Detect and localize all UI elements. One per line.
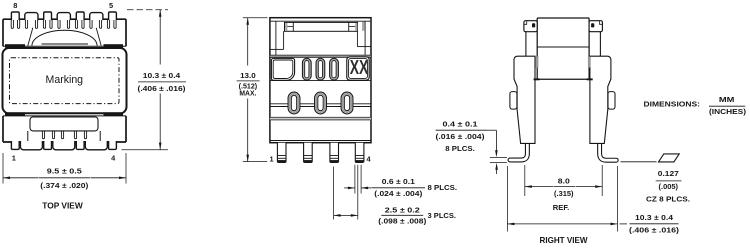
front view: ring 1 outer <box>288 92 300 114</box>
svg-text:8 PLCS.: 8 PLCS. <box>428 183 458 192</box>
top view: upper-left dark ear <box>5 44 25 48</box>
top view: lower core bottom edge <box>3 141 126 143</box>
top view: lower inner flange rect <box>30 117 98 131</box>
front view: ring 1 inner <box>291 95 296 110</box>
dim 0.4: foot top ext line <box>490 156 507 158</box>
dim 8.0: dim line left seg <box>525 186 554 188</box>
front view: left wall second edge <box>283 31 285 49</box>
top view: wide tab 1 (top) <box>25 13 38 21</box>
dim 0.4: fraction bar <box>436 129 487 131</box>
right view: right column outer edge <box>599 32 601 57</box>
svg-text:REF.: REF. <box>553 203 570 212</box>
dim 0.4: leader horizontal <box>487 129 497 131</box>
front view: right wall inner edge <box>364 21 366 55</box>
dim 2.5: left arrowhead <box>334 214 341 217</box>
top view: flange support left <box>27 131 29 142</box>
dim 0.6: pin4 right edge ext <box>360 165 362 194</box>
front view: small slot 1 gray ring <box>304 59 311 79</box>
dim 9.5: dim line left seg <box>3 177 38 179</box>
svg-text:DIMENSIONS:: DIMENSIONS: <box>644 100 701 109</box>
top view: marking dash-dot border <box>10 58 120 104</box>
top view: left slant line <box>28 28 33 46</box>
svg-text:5: 5 <box>109 1 113 10</box>
svg-text:2.5 ± 0.2: 2.5 ± 0.2 <box>385 206 420 215</box>
dim 0.4: down arrowhead <box>495 150 498 157</box>
top view: right slant line <box>96 28 101 46</box>
front view: mid double line lower <box>270 106 371 108</box>
front view: XX box inner <box>349 59 368 79</box>
front view: top cap line <box>270 20 371 22</box>
front view: mid double line upper <box>270 103 371 105</box>
top view: wire hook 9 (upper) <box>75 20 77 28</box>
dim 10.3 top: up arrowhead <box>159 10 162 17</box>
svg-text:8 PLCS.: 8 PLCS. <box>445 144 475 153</box>
front view: left pocket outer <box>271 58 294 80</box>
svg-text:8.0: 8.0 <box>558 176 570 185</box>
front view: small slot 2 inner <box>318 61 322 78</box>
front view: small slot 2 outer <box>316 58 325 80</box>
right view: core block <box>537 18 589 79</box>
top view: core dome arc <box>32 30 97 46</box>
top view: wire hook 2 (lower) <box>52 131 54 139</box>
svg-text:(.406 ± .016): (.406 ± .016) <box>138 84 187 93</box>
front view: ring 2 gray <box>316 94 325 113</box>
right view: left tab step <box>524 21 527 25</box>
top view: wire hook 10 (upper) <box>82 20 84 28</box>
dim 10.3 rv: dim line <box>507 223 617 225</box>
top view: lower-right dark ear <box>104 112 124 116</box>
right view: left tab pin mark <box>532 23 535 27</box>
front view: pin 1 solder tip <box>278 160 286 162</box>
dim 10.3 rv: right ext line <box>617 166 619 232</box>
top view: pin tab 4 (top, pins 8-5) <box>109 12 117 20</box>
front view: base band bottom line <box>270 119 371 121</box>
dim 13.0: dim line upper seg <box>247 18 249 66</box>
dim 8.0: right ext line <box>601 165 603 196</box>
dim 10.3 top: lower extension line <box>122 149 169 151</box>
svg-text:(.016 ± .004): (.016 ± .004) <box>436 132 486 141</box>
svg-text:MAX.: MAX. <box>239 89 256 98</box>
front view: XX box outer <box>347 57 369 80</box>
top view: pin tab 1 (top, pins 8-5) <box>11 12 19 20</box>
front view: line under slots <box>270 80 371 82</box>
dim 13.0: bottom extension line <box>243 161 267 163</box>
dim 2.5: dim line <box>334 214 358 216</box>
svg-text:10.3 ± 0.4: 10.3 ± 0.4 <box>635 213 674 222</box>
top view: upper core bottom edge <box>3 45 126 47</box>
front view: small slot 1 inner <box>305 61 309 78</box>
top view: wide tab 2 (top) <box>57 13 70 21</box>
top view: dome chord line <box>42 43 89 45</box>
dim 13.0: up arrowhead <box>246 18 249 25</box>
right view: left leg bump <box>510 92 517 110</box>
dim 9.5: left extension line <box>2 153 4 184</box>
svg-text:13.0: 13.0 <box>240 71 256 80</box>
front view: left clip shading <box>285 23 287 31</box>
top view: lower-left dark ear <box>5 112 25 116</box>
right view: left top tab <box>524 21 537 32</box>
dim 0.6: right arrow line <box>362 187 372 189</box>
dim 9.5: fraction bar <box>39 177 91 179</box>
front view: pin 1 body <box>277 143 286 163</box>
coplanarity: leader line <box>621 161 657 163</box>
dim 10.3 rv: fraction bar <box>630 223 679 225</box>
top view: wire hook 5 (upper) <box>43 20 45 28</box>
front view: pin 4 tick 2 <box>355 157 364 159</box>
dim 10.3 top: upper extension line <box>127 9 168 11</box>
svg-text:(.406 ± .016): (.406 ± .016) <box>629 226 680 235</box>
right view: left gull-wing lead outer <box>510 140 527 160</box>
top view: wire hook 7 (upper) <box>58 20 60 28</box>
right view: left gray wedge <box>536 57 539 68</box>
dim 8.0: left arrowhead <box>525 185 532 188</box>
top view: wire hook 8 (upper) <box>67 20 69 28</box>
front view: left clip mid line <box>285 25 294 27</box>
dim 8.0: dim line right seg <box>576 186 602 188</box>
front view: pin 4 tick 1 <box>355 155 364 157</box>
dim 0.4: leader vertical <box>495 130 497 151</box>
dim 0.6: pin4 center ext <box>357 165 359 220</box>
dim 9.5: right arrowhead <box>119 177 126 180</box>
front view: small slot 3 outer <box>330 58 339 80</box>
front view: divider double line lower <box>270 56 371 58</box>
top view: wire hook 11 (upper) <box>90 20 92 28</box>
dim 0.6: pin3 center ext <box>333 167 335 220</box>
top view: wide tab 3 (top) <box>90 13 103 21</box>
svg-text:0.4 ± 0.1: 0.4 ± 0.1 <box>443 120 478 129</box>
svg-text:(.005): (.005) <box>659 182 679 191</box>
svg-text:MM: MM <box>719 95 735 104</box>
front view: window right clip line <box>348 22 350 31</box>
front view: divider double line upper <box>270 54 371 56</box>
dim 8.0: left ext line <box>524 165 526 196</box>
top view: upper core section left edge <box>2 19 4 46</box>
dim 13.0: fraction bar <box>237 80 260 82</box>
front view: right wall step <box>357 46 371 48</box>
front view: window left clip line <box>292 22 294 31</box>
top view: upper core section right edge <box>125 19 127 46</box>
dim 10.3 rv: left ext line <box>506 166 508 232</box>
front view: small slot 3 gray ring <box>331 59 338 79</box>
front view: right wall shading <box>362 22 364 31</box>
front view: bottom inner line <box>270 140 371 142</box>
right view: left column outer edge <box>525 32 527 57</box>
coplanarity: parallelogram symbol <box>659 154 680 162</box>
top view: wire hook 2 (upper) <box>18 20 20 28</box>
dim 0.4: foot bottom ext line <box>490 162 507 164</box>
right view: right gull-wing lead outer <box>600 140 617 160</box>
front view: bobbin window <box>285 22 358 31</box>
legend: fraction bar <box>709 105 745 107</box>
front view: pin 2 tick 1 <box>304 155 313 157</box>
top view: wire hook 13 (upper) <box>107 20 109 28</box>
dim 10.3 rv: leader to text <box>620 223 628 225</box>
front view: pin 1 tick 2 <box>277 157 286 159</box>
top view: lower core left edge <box>2 116 4 142</box>
top view: pin tab 3 (top, pins 8-5) <box>76 12 84 20</box>
right view: right top tab <box>589 21 602 32</box>
top view: wire hook 6 (upper) <box>50 20 52 28</box>
dim 13.0: top extension line <box>243 17 268 19</box>
top view: lower core right edge <box>125 116 127 142</box>
svg-text:8: 8 <box>13 1 17 10</box>
dim 0.4: up arrow line <box>496 168 498 175</box>
dim 0.6: pin4 left edge ext <box>354 165 356 194</box>
top view: wire hook 1 (upper) <box>11 20 13 28</box>
svg-text:CZ 8 PLCS.: CZ 8 PLCS. <box>646 194 690 203</box>
dim 10.3 top: dim line lower seg <box>159 94 161 150</box>
front view: ring 3 outer <box>341 92 353 114</box>
dim 9.5: dim line right seg <box>91 177 127 179</box>
front view: small slot 2 gray ring <box>317 59 324 79</box>
front view: ring 3 inner <box>344 95 349 110</box>
svg-text:10.3 ± 0.4: 10.3 ± 0.4 <box>143 71 182 80</box>
dim 10.3 rv: right arrowhead <box>611 223 618 226</box>
dim 10.3 top: dim line upper seg <box>159 10 161 65</box>
top view: lower core top edge <box>3 115 126 117</box>
front view: pin 2 tick 2 <box>304 157 313 159</box>
svg-text:(INCHES): (INCHES) <box>709 107 747 116</box>
right view: core divide line <box>537 46 589 48</box>
dim 8.0: right arrowhead <box>595 185 602 188</box>
dim 0.6: left arrow line <box>344 187 354 189</box>
front view: ring 1 gray <box>290 94 299 113</box>
svg-text:(.098 ± .008): (.098 ± .008) <box>378 217 427 226</box>
top view: wire hook 4 (lower) <box>74 131 76 139</box>
front view: pin 2 solder tip <box>304 160 312 162</box>
front view: small slot 3 inner <box>332 61 336 78</box>
front view: ring 2 outer <box>315 92 327 114</box>
top view: pin tab 3 (bottom, pins 1-4) <box>76 141 84 149</box>
front view: right clip mid line <box>349 25 358 27</box>
right view: core bottom right dark mark <box>587 78 593 80</box>
top view: wire hook 4 (upper) <box>35 20 37 28</box>
front view: pin 4 solder tip <box>356 160 364 162</box>
svg-text:TOP VIEW: TOP VIEW <box>42 201 83 210</box>
right view: right leg bump <box>608 92 615 110</box>
svg-text:(.374 ± .020): (.374 ± .020) <box>40 181 89 190</box>
front view: divider band fill <box>270 56 371 57</box>
top view: wire hook 3 (lower) <box>61 131 63 139</box>
top view: pin tab 2 (top, pins 8-5) <box>44 12 52 20</box>
top view: wide tab 3 (bottom) <box>85 141 107 150</box>
top view: wire hook 3 (upper) <box>25 20 27 28</box>
top view: wire hook 5 (lower) <box>84 131 86 139</box>
front view: base band top line <box>270 116 371 118</box>
right view: right leg <box>590 56 611 143</box>
top view: wide tab 1 (bottom) <box>20 141 42 150</box>
top view: wire hook 14 (upper) <box>114 20 116 28</box>
svg-text:1: 1 <box>12 153 16 162</box>
front view: ring 2 inner <box>318 95 323 110</box>
svg-text:(.315): (.315) <box>554 189 574 198</box>
dim 0.6: right arrowhead <box>361 187 368 190</box>
front view: pin 1 tick 1 <box>277 155 286 157</box>
top view: wire hook 12 (upper) <box>99 20 101 28</box>
dim 10.3 rv: left arrowhead <box>507 223 514 226</box>
front view: left wall step <box>270 48 284 50</box>
right view: right gull-wing lead inner <box>600 140 617 160</box>
front view: left pocket inner <box>273 60 293 79</box>
front view: pin 3 solder tip <box>330 160 338 162</box>
top view: pin tab 4 (bottom, pins 1-4) <box>109 141 117 149</box>
right view: core bottom left dark mark <box>534 78 540 80</box>
dim 10.3 top: down arrowhead <box>159 143 162 150</box>
svg-text:0.127: 0.127 <box>658 169 679 178</box>
top view: pin tab 1 (bottom, pins 1-4) <box>11 141 19 149</box>
front view: pin 2 body <box>304 143 313 163</box>
top view: flange support right <box>99 131 101 142</box>
top view: pin tab 2 (bottom, pins 1-4) <box>44 141 52 149</box>
front view: pin 4 body <box>355 143 364 163</box>
top view: marking body outline <box>3 48 127 113</box>
front view: right clip shading <box>355 23 357 31</box>
svg-text:RIGHT VIEW: RIGHT VIEW <box>540 236 588 245</box>
dim 9.5: right extension line <box>125 153 127 184</box>
front view: small slot 1 outer <box>302 58 311 80</box>
right view: left leg <box>514 56 535 143</box>
dim 0.6: left arrowhead <box>348 187 355 190</box>
front view: body outline <box>270 18 371 143</box>
front view: right wall second edge <box>356 31 358 46</box>
svg-text:(.024 ± .004): (.024 ± .004) <box>374 189 423 198</box>
dim 8.0: fraction bar <box>554 186 576 188</box>
dim 9.5: left arrowhead <box>3 177 10 180</box>
svg-text:3 PLCS.: 3 PLCS. <box>428 211 457 220</box>
top view: upper-right dark ear <box>104 44 124 48</box>
dim 10.3 top: fraction bar <box>138 81 186 83</box>
dim 2.5: right arrowhead <box>351 214 358 217</box>
right view: right gray wedge <box>588 57 591 68</box>
dim 0.6: fraction bar <box>372 187 425 189</box>
top view: wide tab 2 (bottom) <box>53 141 75 150</box>
top view: wire hook 1 (lower) <box>42 131 44 139</box>
front view: base band fill <box>270 118 371 120</box>
front view: pin 3 tick 2 <box>330 157 339 159</box>
right view: right tab step <box>600 21 603 25</box>
front view: pin 3 tick 1 <box>330 155 339 157</box>
dim 2.5: fraction bar <box>381 214 423 216</box>
dim 0.4: up arrowhead <box>495 163 498 170</box>
dim 13.0: down arrowhead <box>246 155 249 162</box>
front view: left wall inner edge <box>275 21 277 55</box>
svg-text:Marking: Marking <box>46 74 84 86</box>
coplanarity: fraction bar <box>656 180 682 182</box>
svg-text:9.5 ± 0.5: 9.5 ± 0.5 <box>47 166 82 175</box>
svg-text:XX: XX <box>350 57 369 79</box>
front view: pin 3 body <box>330 143 339 163</box>
top view: upper core top edge <box>3 18 126 20</box>
right view: right tab pin mark <box>591 23 594 27</box>
front view: ring 3 gray <box>343 94 352 113</box>
svg-text:0.6 ± 0.1: 0.6 ± 0.1 <box>382 177 415 186</box>
right view: left gull-wing lead inner <box>510 140 527 160</box>
dim 13.0: dim line lower seg <box>247 99 249 162</box>
svg-text:1: 1 <box>269 154 273 163</box>
